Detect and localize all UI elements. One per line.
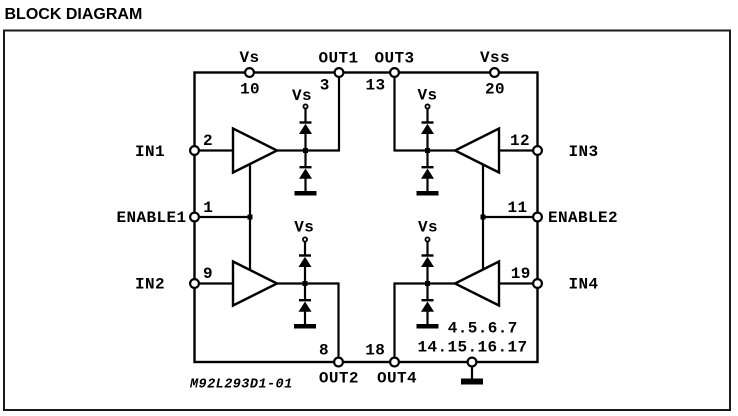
IC outline rectangle	[195, 73, 538, 363]
svg-text:Vs: Vs	[294, 219, 314, 237]
wire Vs terminal to diode D5 cathode	[426, 109, 428, 123]
junction dot at output node	[303, 281, 308, 286]
op-amp A1 (driver channel 1)	[233, 129, 277, 173]
svg-text:IN2: IN2	[135, 275, 165, 293]
svg-text:Vs: Vs	[418, 219, 438, 237]
pin 11 ENABLE2 terminal	[533, 213, 542, 222]
wire diode D2 anode to ground	[304, 179, 306, 192]
pin 19 IN4 terminal	[533, 279, 542, 288]
pin 3 OUT1 terminal	[335, 68, 344, 77]
junction dot at output node	[425, 148, 430, 153]
pin 10 Vs terminal	[245, 68, 254, 77]
pin 1 ENABLE1 terminal	[190, 213, 199, 222]
junction dot at output node	[303, 148, 308, 153]
svg-text:BLOCK DIAGRAM: BLOCK DIAGRAM	[5, 6, 143, 23]
svg-text:4.5.6.7: 4.5.6.7	[448, 320, 518, 338]
pin 18 OUT4 terminal	[390, 358, 399, 367]
node Vs supply terminal for channel 4	[418, 219, 438, 242]
wire IN1 pin to amplifier A1 input	[195, 149, 234, 151]
svg-text:11: 11	[507, 199, 527, 217]
pin 12 IN3 terminal	[533, 146, 542, 155]
svg-text:M92L293D1-01: M92L293D1-01	[189, 378, 293, 393]
ground (clamp channel 2)	[294, 324, 316, 329]
wire diode D1 anode to output node / diode D2 cathode	[304, 134, 306, 167]
wire OUT3 pin down to channel-3 output line	[393, 73, 395, 151]
wire OUT2 riser down to OUT2 pin	[337, 283, 339, 363]
svg-text:18: 18	[365, 342, 385, 360]
wire amplifier A2 output to OUT2 riser	[277, 282, 340, 284]
ground (clamp channel 4)	[417, 324, 439, 329]
wire diode D4 anode to ground	[304, 312, 306, 325]
node Vs supply terminal for channel 2	[294, 219, 314, 242]
svg-text:ENABLE1: ENABLE1	[116, 209, 186, 227]
wire Vs terminal to diode D1 cathode	[304, 109, 306, 123]
pin 20 Vss terminal	[490, 68, 499, 77]
wire Vs terminal to diode D3 cathode	[304, 242, 306, 256]
svg-text:Vss: Vss	[480, 49, 510, 67]
svg-text:14.15.16.17: 14.15.16.17	[417, 339, 527, 357]
ground (clamp channel 3)	[417, 191, 439, 196]
svg-text:IN1: IN1	[135, 143, 165, 161]
svg-text:1: 1	[203, 199, 213, 217]
wire IN4 pin to amplifier A4 input	[499, 282, 538, 284]
svg-text:19: 19	[511, 265, 531, 283]
wire amplifier A4 output to OUT4 riser	[394, 282, 456, 284]
svg-text:Vs: Vs	[417, 87, 437, 105]
pin 2 IN1 terminal	[190, 146, 199, 155]
wire amplifier A1 output to OUT1 node	[277, 149, 340, 151]
wire diode D6 anode to ground	[426, 179, 428, 192]
junction dot enable bus 1	[248, 215, 253, 220]
wire ENABLE1 pin to enable bus	[195, 216, 251, 218]
pin 4,5,6,7,14,15,16,17 GND terminal	[468, 358, 477, 367]
wire OUT4 riser down to OUT4 pin	[393, 283, 395, 363]
svg-text:12: 12	[510, 132, 530, 150]
diode D5 (clamp to Vs)	[421, 121, 434, 134]
svg-text:IN3: IN3	[569, 143, 599, 161]
svg-text:2: 2	[203, 132, 213, 150]
wire diode D7 anode to output node / diode D8 cathode	[426, 267, 428, 300]
wire Vs terminal to diode D7 cathode	[426, 242, 428, 256]
diode D7 (clamp to Vs)	[421, 254, 434, 267]
svg-text:OUT3: OUT3	[374, 50, 414, 68]
wire IN3 pin to amplifier A3 input	[499, 149, 538, 151]
node Vs supply terminal for channel 1	[292, 87, 312, 109]
svg-text:13: 13	[365, 76, 385, 94]
junction dot enable bus 2	[481, 215, 486, 220]
ground (main GND symbol below pins 4,5,6,7,14,15,16,17)	[461, 379, 483, 385]
op-amp A3 (driver channel 3)	[455, 129, 499, 173]
wire enable bus joining A1 and A2	[249, 163, 251, 270]
pin 13 OUT3 terminal	[390, 68, 399, 77]
wire ENABLE2 pin to enable bus	[483, 216, 538, 218]
wire OUT1 pin down to channel-1 output line	[338, 73, 340, 151]
svg-text:OUT4: OUT4	[377, 370, 417, 388]
wire diode D8 anode to ground	[426, 312, 428, 325]
wire diode D3 anode to output node / diode D4 cathode	[304, 267, 306, 300]
node Vs supply terminal for channel 3	[417, 87, 437, 109]
svg-text:IN4: IN4	[569, 275, 599, 293]
svg-text:ENABLE2: ENABLE2	[548, 209, 618, 227]
svg-text:3: 3	[320, 76, 330, 94]
junction dot at output node	[425, 281, 430, 286]
diode D1 (clamp to Vs)	[299, 121, 312, 134]
pin 8 OUT2 terminal	[334, 358, 343, 367]
svg-text:20: 20	[485, 81, 505, 99]
wire GND pin stub to ground symbol	[471, 362, 473, 379]
svg-text:9: 9	[203, 265, 213, 283]
diode D4 (clamp to ground)	[299, 299, 312, 312]
wire amplifier A3 output to OUT3 node	[394, 149, 456, 151]
svg-text:Vs: Vs	[292, 87, 312, 105]
op-amp A2 (driver channel 2)	[233, 262, 277, 306]
svg-text:OUT2: OUT2	[319, 370, 359, 388]
op-amp A4 (driver channel 4)	[455, 262, 499, 306]
diode D3 (clamp to Vs)	[299, 254, 312, 267]
diode D6 (clamp to ground)	[421, 166, 434, 179]
wire diode D5 anode to output node / diode D6 cathode	[426, 134, 428, 167]
svg-text:8: 8	[319, 342, 329, 360]
pin 9 IN2 terminal	[190, 279, 199, 288]
diode D2 (clamp to ground)	[299, 166, 312, 179]
svg-text:Vs: Vs	[239, 49, 259, 67]
wire enable bus joining A3 and A4	[482, 165, 484, 270]
wire IN2 pin to amplifier A2 input	[195, 282, 234, 284]
diode D8 (clamp to ground)	[421, 299, 434, 312]
svg-text:10: 10	[240, 81, 260, 99]
ground (clamp channel 1)	[295, 191, 317, 196]
svg-text:OUT1: OUT1	[318, 50, 358, 68]
